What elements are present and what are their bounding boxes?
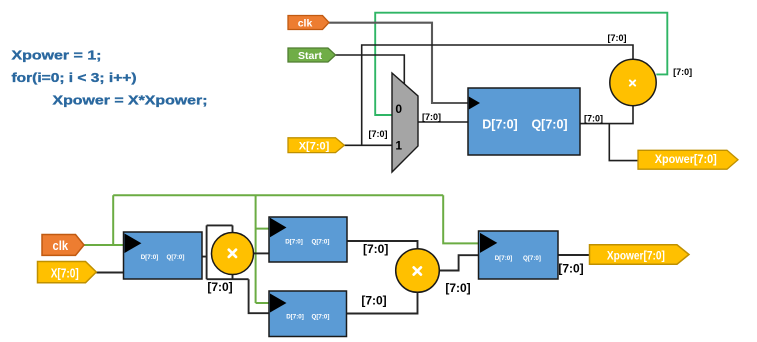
output port Xpower[7:0] (bottom) [590, 245, 690, 264]
svg-text:D[7:0]: D[7:0] [141, 254, 159, 261]
clock rail horizontal (green) [113, 194, 443, 196]
wire Start to mux select [336, 55, 405, 84]
svg-text:for(i=0; i < 3; i++): for(i=0; i < 3; i++) [12, 70, 137, 85]
svg-text:[7:0]: [7:0] [207, 280, 232, 294]
svg-text:X[7:0]: X[7:0] [299, 140, 330, 152]
register 3 D[7:0] Q[7:0] [479, 231, 559, 279]
input port Start [288, 48, 336, 62]
svg-text:[7:0]: [7:0] [361, 294, 386, 308]
input port clk (top) [288, 16, 329, 30]
multiplier (top) [610, 59, 656, 105]
wire register 2b Q to multiplier2 bottom input [347, 292, 418, 314]
wire multiplier1 output to register 2a D [254, 252, 270, 254]
svg-text:Q[7:0]: Q[7:0] [312, 314, 330, 321]
svg-text:clk: clk [298, 17, 313, 29]
svg-text:clk: clk [53, 238, 69, 253]
svg-text:[7:0]: [7:0] [607, 33, 626, 43]
wire register Q to multiplier bottom input [580, 105, 633, 124]
svg-text:D[7:0]: D[7:0] [495, 255, 513, 262]
svg-text:X[7:0]: X[7:0] [51, 265, 79, 280]
input port X[7:0] (bottom) [38, 262, 97, 283]
svg-text:Xpower = 1;: Xpower = 1; [12, 48, 102, 63]
svg-text:D[7:0]: D[7:0] [482, 117, 517, 131]
svg-text:[7:0]: [7:0] [422, 112, 441, 122]
register U1 D[7:0] Q[7:0] (top) [468, 88, 580, 155]
svg-text:Xpower[7:0]: Xpower[7:0] [655, 152, 717, 166]
svg-text:Start: Start [298, 50, 322, 62]
wire register1 Q to multiplier1 inputs (loop box) [202, 225, 249, 279]
wire X to mux input 1 [344, 144, 392, 146]
svg-text:D[7:0]: D[7:0] [286, 314, 304, 321]
svg-text:Q[7:0]: Q[7:0] [167, 254, 185, 261]
input port X[7:0] (top) [288, 138, 344, 153]
register 2b D[7:0] Q[7:0] [269, 291, 347, 337]
wire register 3 Q to output Xpower [558, 254, 590, 256]
svg-text:Q[7:0]: Q[7:0] [531, 117, 567, 131]
wire register 2a Q to multiplier2 top input [347, 241, 418, 249]
svg-text:[7:0]: [7:0] [363, 242, 388, 256]
wire multiplier output feedback to mux input 0 (green) [375, 13, 667, 115]
wire multiplier2 output to register 3 D [439, 255, 479, 270]
wire clk to clock rail (green) [84, 244, 125, 246]
svg-text:[7:0]: [7:0] [673, 67, 692, 77]
clock branch to middle registers (green) [256, 195, 270, 303]
wire mux output to register D [418, 121, 468, 123]
register 2a D[7:0] Q[7:0] [269, 217, 347, 262]
svg-text:[7:0]: [7:0] [558, 262, 583, 276]
svg-text:Q[7:0]: Q[7:0] [523, 255, 541, 262]
mux (top) [392, 73, 418, 172]
svg-text:[7:0]: [7:0] [445, 281, 470, 295]
output port Xpower[7:0] (top) [638, 150, 738, 169]
svg-text:[7:0]: [7:0] [584, 113, 603, 123]
wire X to register 1 D [96, 272, 123, 274]
svg-text:1: 1 [395, 138, 402, 152]
multiplier 2 [396, 249, 440, 293]
multiplier 1 [212, 233, 254, 275]
svg-text:0: 0 [395, 102, 402, 116]
svg-text:Xpower[7:0]: Xpower[7:0] [607, 249, 665, 263]
svg-text:D[7:0]: D[7:0] [285, 239, 303, 246]
wire X to multiplier top input [362, 45, 633, 145]
svg-text:[7:0]: [7:0] [368, 129, 387, 139]
clock branch to output register (green) [443, 195, 479, 243]
input port clk (bottom) [42, 235, 84, 256]
wire register Q to output Xpower [609, 124, 638, 161]
register 1 D[7:0] Q[7:0] [124, 232, 203, 279]
code listing (C source) [12, 48, 208, 108]
svg-text:Q[7:0]: Q[7:0] [312, 239, 330, 246]
wire register1 Q down to register 2b D [249, 279, 270, 313]
svg-text:Xpower = X*Xpower;: Xpower = X*Xpower; [53, 92, 208, 107]
clock rail vertical up from clk wire (green) [112, 195, 114, 245]
wire clk to register clock (top) [329, 23, 468, 103]
